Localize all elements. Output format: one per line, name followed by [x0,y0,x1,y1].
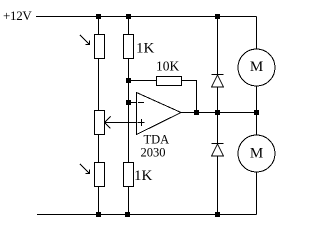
svg-text:+12V: +12V [3,8,32,23]
svg-text:1K: 1K [134,168,153,184]
net +12V top rail wire [36,16,257,18]
wire diode column bottom (D2 to ground rail) [217,157,219,215]
wire column A (LDR1 to potentiometer) [98,59,100,111]
arrow on LDR1 [80,35,90,45]
op-amp U1 inverting input minus sign [138,102,144,104]
junction node feedback-output [194,110,199,115]
svg-text:1K: 1K [136,41,155,57]
resistor LDR1 body [95,35,105,59]
wire column A (potentiometer to LDR2) [98,135,100,163]
wire diode column middle (D1 to D2 through output node) [217,88,219,144]
junction node inverting input [126,100,131,105]
potentiometer P1 body [95,111,105,135]
op-amp U1 non-inverting input plus sign [138,119,145,126]
svg-text:10K: 10K [156,59,180,74]
resistor R1 1K body [124,35,134,59]
arrow on LDR2 [80,164,90,174]
wire column B middle (R1 to R2, inverting input node) [128,59,130,163]
diode D1 [212,75,224,88]
junction node motor midpoint [254,110,259,115]
resistor LDR2 body [95,163,105,187]
ground bottom rail wire [37,214,257,216]
junction node diode-output [215,110,220,115]
op-amp U1 triangle [137,93,182,135]
junction node diode-bottom [215,212,220,217]
junction node B-top [126,14,131,19]
junction node B-bottom [125,212,130,217]
wire feedback left (node to 10K) [129,80,157,82]
wire feedback right (10K to output) [182,81,197,113]
wire wiper to non-inverting input [105,122,137,124]
resistor R3 10K body [157,77,182,86]
wire inverting input [129,102,137,104]
svg-text:TDA: TDA [144,133,170,147]
wire diode column top (rail to D1) [217,17,219,75]
resistor R2 1K body [124,163,134,187]
junction node diode-top [215,14,220,19]
wire column B top (rail to R1) [128,17,130,35]
potentiometer wiper arrowhead [105,117,111,129]
wire column B bottom (R2 to ground rail) [128,187,130,215]
motor M2 circle [238,135,275,172]
wire motor column middle (M1 to M2 through output node) [256,86,258,136]
junction node feedback tap [126,78,131,83]
svg-text:M: M [250,146,263,162]
diode D2 [212,144,224,157]
wire column A top (rail to LDR1) [98,17,100,35]
svg-text:2030: 2030 [141,146,166,160]
motor M1 circle [238,49,275,86]
junction node A-top [96,14,101,19]
wire motor column top (rail to M1) [256,17,258,50]
junction node A-bottom [96,212,101,217]
wire motor column bottom (M2 to ground rail) [256,172,258,215]
svg-text:M: M [250,59,263,75]
wire column A bottom (LDR2 to ground rail) [98,187,100,215]
op-amp output wire [180,112,257,114]
